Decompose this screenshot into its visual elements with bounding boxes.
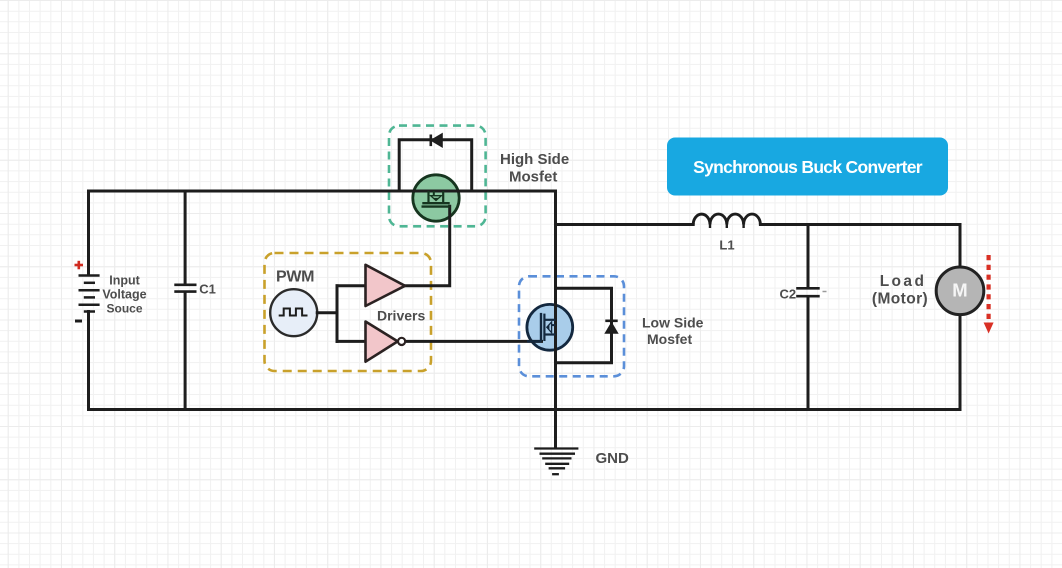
svg-text:Load: Load: [880, 273, 927, 290]
svg-text:High Side: High Side: [500, 151, 569, 168]
svg-text:Mosfet: Mosfet: [647, 331, 692, 347]
svg-text:Low Side: Low Side: [642, 315, 704, 331]
svg-text:Synchronous Buck Converter: Synchronous Buck Converter: [693, 157, 923, 177]
svg-text:M: M: [952, 280, 967, 301]
svg-text:Input: Input: [109, 274, 140, 288]
svg-text:Drivers: Drivers: [377, 307, 425, 323]
svg-text:PWM: PWM: [276, 269, 314, 286]
svg-text:GND: GND: [596, 450, 630, 467]
svg-text:(Motor): (Motor): [872, 291, 928, 308]
svg-text:C2: C2: [780, 287, 797, 302]
svg-text:Voltage: Voltage: [102, 288, 146, 302]
svg-text:Mosfet: Mosfet: [509, 169, 557, 186]
svg-text:C1: C1: [199, 282, 216, 297]
svg-text:Souce: Souce: [106, 302, 142, 316]
svg-text:L1: L1: [719, 238, 734, 253]
